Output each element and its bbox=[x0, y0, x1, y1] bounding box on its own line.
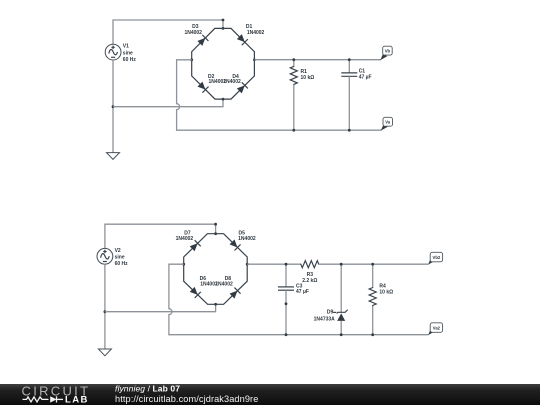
label R3 bbox=[302, 272, 317, 284]
wire V1 bottom to ground bbox=[112, 60, 114, 153]
svg-text:flynnieg / Lab 07: flynnieg / Lab 07 bbox=[115, 384, 180, 394]
bridge rectifier octagon body bbox=[192, 28, 255, 99]
junction D9 top bbox=[340, 263, 343, 266]
svg-text:1N4733A: 1N4733A bbox=[314, 317, 336, 323]
wire mid rail to bridge bottom bbox=[113, 99, 223, 107]
label V2 value bbox=[115, 248, 129, 267]
svg-text:LAB: LAB bbox=[65, 394, 89, 405]
svg-text:60 Hz: 60 Hz bbox=[123, 57, 137, 63]
zener diode D9 bbox=[333, 264, 348, 335]
diode D5 bbox=[229, 239, 241, 251]
junction R4 bottom bbox=[371, 333, 374, 336]
junction R1 bottom bbox=[292, 129, 295, 132]
wire bridge top stub bbox=[222, 20, 224, 28]
label D6 bbox=[200, 276, 218, 287]
wire top rail V2 to bridge2 top bbox=[105, 224, 216, 248]
svg-text:1N4002: 1N4002 bbox=[238, 236, 256, 242]
junction D9 bottom bbox=[340, 333, 343, 336]
junction R1 top bbox=[292, 58, 295, 61]
label V1 value bbox=[123, 44, 137, 63]
junction bridge2 bottom terminal bbox=[214, 303, 217, 306]
junction bridge top terminal bbox=[222, 27, 225, 30]
svg-text:sine: sine bbox=[123, 50, 133, 56]
junction R4 top bbox=[371, 263, 374, 266]
wire bridge2 top stub bbox=[215, 224, 217, 234]
label D5 bbox=[238, 231, 256, 242]
svg-text:60 Hz: 60 Hz bbox=[115, 261, 129, 267]
wire R3 to Vb2 bbox=[319, 263, 428, 265]
junction bridge2 right node bbox=[246, 263, 249, 266]
svg-text:10 kΩ: 10 kΩ bbox=[301, 75, 315, 81]
label D7 bbox=[176, 231, 194, 242]
flag Va bbox=[381, 117, 393, 130]
svg-text:sine: sine bbox=[115, 255, 125, 261]
flag Va2 bbox=[428, 323, 443, 335]
wire bridge right node to Vb bbox=[254, 59, 381, 61]
junction C1 top bbox=[348, 58, 351, 61]
junction bridge2 left node bbox=[182, 263, 185, 266]
logo resistor squiggle bbox=[23, 397, 49, 402]
svg-text:1N4002: 1N4002 bbox=[223, 79, 241, 85]
diode D1 bbox=[236, 34, 248, 46]
diode D2 bbox=[197, 81, 209, 93]
junction C1 bottom bbox=[348, 129, 351, 132]
junction C3 top bbox=[285, 263, 288, 266]
resistor R3 bbox=[300, 261, 319, 268]
svg-text:47 µF: 47 µF bbox=[296, 289, 309, 295]
wire bridge2 left node down with hop bbox=[169, 264, 428, 335]
label C3 bbox=[296, 283, 309, 295]
label R4 bbox=[379, 283, 393, 295]
footer bar bbox=[0, 384, 540, 405]
label D1 bbox=[246, 24, 265, 36]
diode D8 bbox=[229, 288, 241, 300]
wire mid rail 2 to bridge2 bottom bbox=[105, 304, 216, 311]
svg-text:http://circuitlab.com/cjdrak3a: http://circuitlab.com/cjdrak3adn9re bbox=[115, 394, 258, 404]
svg-text:47 µF: 47 µF bbox=[359, 75, 372, 81]
diode D4 bbox=[236, 82, 248, 94]
wire bridge left node down with hop bbox=[177, 60, 382, 130]
resistor R4 bbox=[369, 264, 376, 335]
capacitor C1 bbox=[341, 60, 357, 131]
svg-text:V2: V2 bbox=[115, 248, 121, 254]
junction C3 bottom bbox=[285, 333, 288, 336]
svg-text:Vb2: Vb2 bbox=[433, 255, 441, 260]
junction V1 mid node bbox=[112, 105, 115, 108]
label R1 bbox=[301, 69, 315, 81]
resistor R1 bbox=[290, 60, 297, 131]
bridge rectifier 2 octagon body bbox=[184, 234, 248, 305]
svg-text:Va2: Va2 bbox=[433, 326, 441, 331]
ground bbox=[107, 153, 120, 160]
voltage source V2 bbox=[97, 248, 113, 264]
label D8 bbox=[215, 276, 233, 287]
svg-text:2.2 kΩ: 2.2 kΩ bbox=[302, 278, 317, 284]
svg-text:1N4002: 1N4002 bbox=[184, 30, 202, 36]
junction bridge right node bbox=[253, 58, 256, 61]
junction C3 mid node bbox=[285, 302, 288, 305]
svg-text:D9: D9 bbox=[327, 309, 334, 315]
junction top corner node bbox=[222, 19, 225, 22]
label D9 bbox=[314, 309, 336, 322]
logo diode bbox=[50, 396, 63, 402]
junction bridge bottom terminal bbox=[222, 98, 225, 101]
flag Vb2 bbox=[428, 252, 443, 264]
label D3 bbox=[184, 24, 202, 36]
svg-text:Va: Va bbox=[385, 120, 391, 125]
label D2 bbox=[208, 74, 226, 85]
junction V2 mid node bbox=[104, 310, 107, 313]
flag Vb bbox=[380, 46, 392, 60]
label C1 bbox=[359, 69, 372, 81]
junction bridge2 top terminal bbox=[214, 232, 217, 235]
wire bridge2 right node to R3 bbox=[247, 263, 301, 265]
wire top rail V1 to bridge top bbox=[113, 20, 223, 44]
junction bridge left node bbox=[190, 58, 193, 61]
voltage source V1 bbox=[105, 44, 121, 60]
diode D6 bbox=[189, 286, 201, 298]
junction top corner node 2 bbox=[214, 223, 217, 226]
capacitor C3 bbox=[278, 264, 294, 335]
diode D3 bbox=[197, 35, 209, 47]
label D4 bbox=[223, 74, 241, 85]
svg-text:V1: V1 bbox=[123, 44, 129, 50]
ground 2 bbox=[98, 349, 111, 356]
svg-text:1N4002: 1N4002 bbox=[215, 281, 233, 287]
svg-text:Vb: Vb bbox=[385, 49, 391, 54]
svg-text:1N4002: 1N4002 bbox=[176, 236, 194, 242]
svg-text:1N4002: 1N4002 bbox=[247, 30, 265, 36]
svg-text:10 kΩ: 10 kΩ bbox=[379, 289, 393, 295]
diode D7 bbox=[189, 240, 201, 252]
wire V2 bottom to ground bbox=[104, 264, 106, 349]
